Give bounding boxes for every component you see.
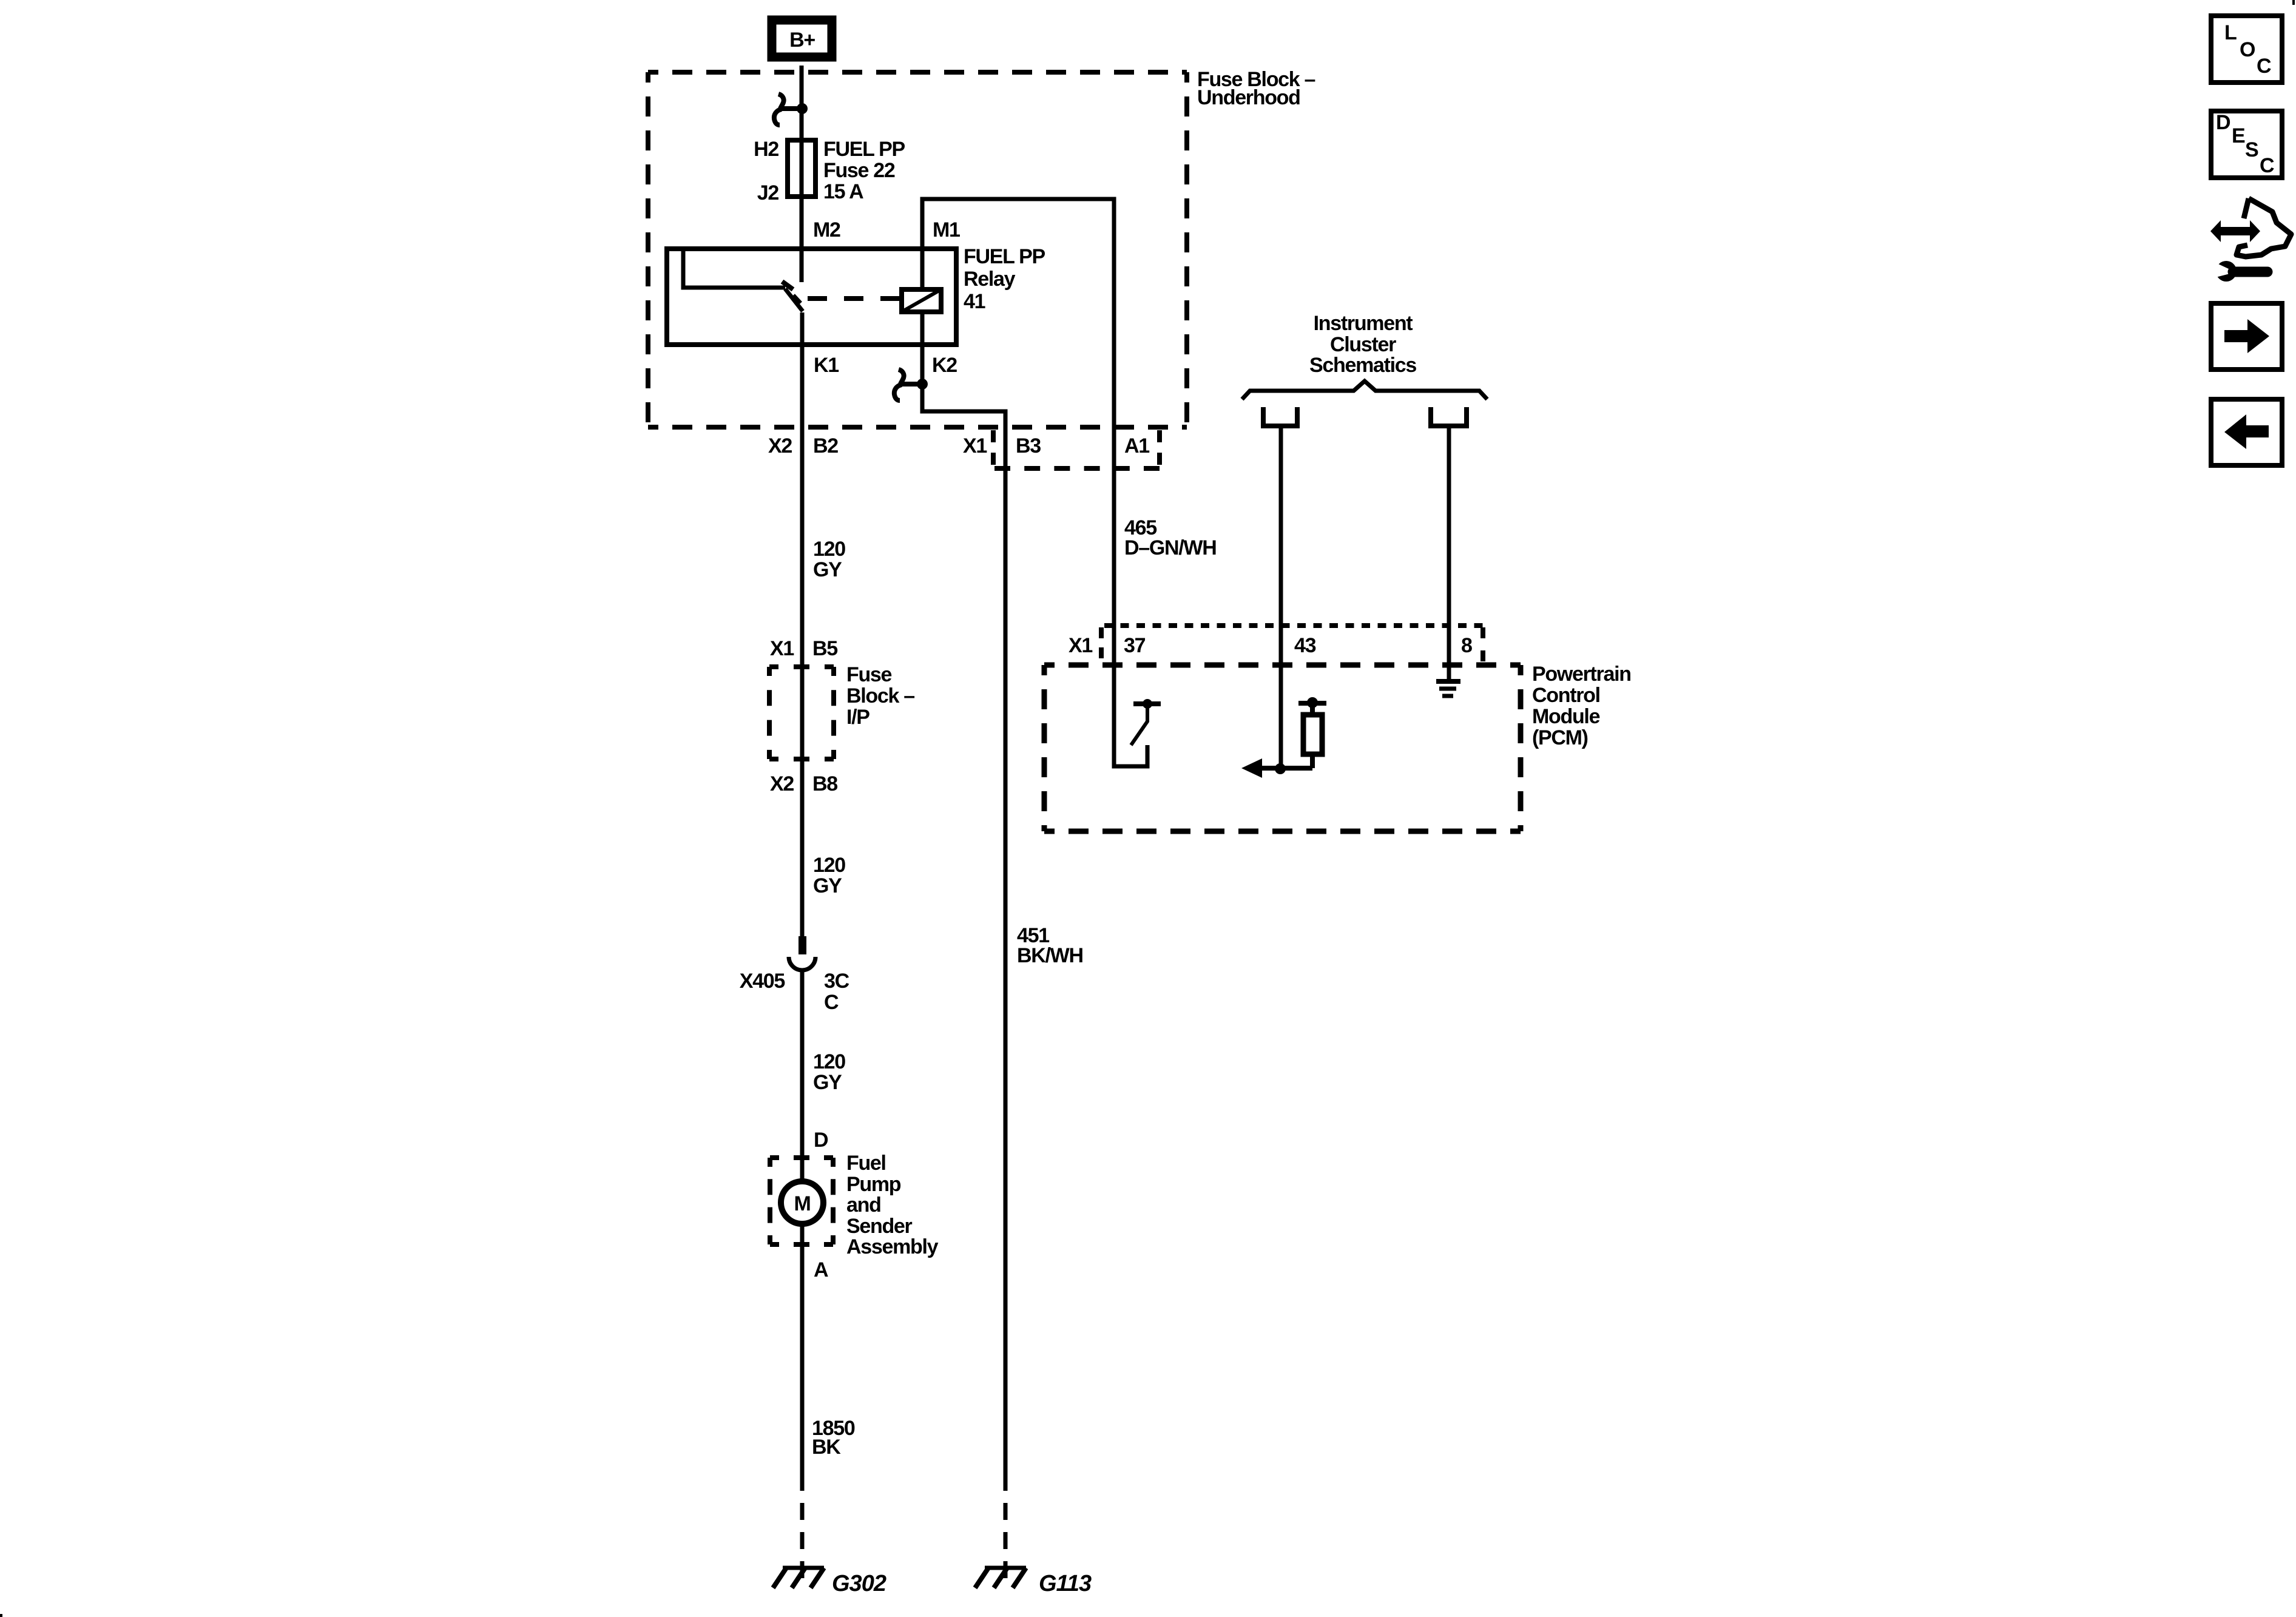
connector row X2 B2 — [768, 434, 838, 457]
relay contact tick — [782, 282, 793, 289]
fuse block underhood dashed box — [648, 72, 1187, 427]
svg-text:G302: G302 — [832, 1571, 886, 1596]
svg-text:Control: Control — [1532, 684, 1600, 707]
fuse block I/P dashed box — [769, 667, 834, 759]
svg-text:FUEL PP: FUEL PP — [823, 138, 905, 161]
label X405 3C C — [740, 970, 849, 1014]
brace instrument cluster — [1242, 381, 1487, 399]
value label FUEL PP Fuse 22 15 A — [823, 138, 905, 203]
instrument cluster connector left — [1263, 407, 1297, 426]
svg-text:E: E — [2232, 124, 2245, 147]
svg-text:Pump: Pump — [846, 1173, 901, 1196]
instrument cluster connector right — [1431, 407, 1467, 426]
svg-text:B8: B8 — [812, 772, 837, 795]
svg-text:M2: M2 — [813, 218, 840, 241]
svg-text:Powertrain: Powertrain — [1532, 663, 1631, 686]
svg-text:37: 37 — [1124, 634, 1146, 657]
svg-text:8: 8 — [1461, 634, 1472, 657]
svg-text:B2: B2 — [813, 434, 838, 457]
ground G302 — [773, 1568, 886, 1596]
wire M1 coil to PCM pin 37 (net 465) — [922, 199, 1147, 766]
wire pump to ground solid — [800, 1223, 805, 1491]
PCM internal ground at pin 8 — [1436, 681, 1460, 696]
svg-text:B5: B5 — [812, 637, 837, 660]
svg-text:Block –: Block – — [846, 684, 914, 707]
PCM dashed box — [1044, 665, 1521, 831]
svg-text:L: L — [2224, 21, 2237, 44]
svg-text:S: S — [2245, 138, 2258, 161]
svg-text:GY: GY — [813, 1071, 842, 1094]
svg-text:K1: K1 — [814, 354, 839, 377]
wire label 120 GY middle — [813, 854, 845, 897]
svg-text:Fuel: Fuel — [846, 1152, 886, 1175]
svg-text:Fuse 22: Fuse 22 — [823, 159, 895, 182]
PCM internal resistor at pin 43 — [1298, 697, 1326, 768]
label FUEL PP Relay 41 — [964, 245, 1045, 313]
wire relay arm to K1 — [800, 312, 805, 936]
wire dashed to G113 — [1004, 1503, 1008, 1580]
svg-text:41: 41 — [964, 290, 985, 313]
page artifact dot bottom left — [0, 1614, 2, 1617]
svg-text:Cluster: Cluster — [1330, 333, 1396, 356]
svg-text:O: O — [2240, 38, 2255, 61]
svg-text:M: M — [794, 1192, 810, 1215]
svg-text:D: D — [814, 1129, 828, 1152]
icon forward arrow box — [2211, 303, 2282, 370]
svg-text:J2: J2 — [757, 181, 779, 204]
svg-text:120: 120 — [813, 854, 845, 877]
svg-text:B+: B+ — [789, 29, 815, 52]
svg-text:X405: X405 — [740, 970, 785, 993]
svg-text:M1: M1 — [933, 218, 960, 241]
svg-text:Instrument: Instrument — [1314, 312, 1413, 335]
splice clip at B+ feed — [774, 94, 808, 125]
relay fixed contact lead — [683, 249, 785, 288]
svg-text:Relay: Relay — [964, 268, 1016, 291]
net label 451 BK/WH — [1017, 924, 1083, 967]
icon DESC box — [2211, 111, 2282, 178]
wire coil to K2 and jog to net 451 — [922, 312, 1005, 1491]
fuel pump and sender assembly dashed box — [770, 1158, 833, 1244]
svg-text:120: 120 — [813, 1050, 845, 1073]
svg-text:I/P: I/P — [846, 706, 869, 729]
svg-text:43: 43 — [1294, 634, 1316, 657]
label Fuel Pump and Sender Assembly — [846, 1152, 939, 1258]
wire label 120 GY upper — [813, 538, 845, 581]
svg-text:Schematics: Schematics — [1309, 354, 1416, 377]
fuse FUEL PP Fuse 22 15A — [788, 140, 815, 197]
relay switch arm — [785, 289, 803, 311]
connector row X2 B8 — [770, 772, 837, 795]
svg-text:120: 120 — [813, 538, 845, 561]
svg-text:GY: GY — [813, 874, 842, 897]
svg-text:X2: X2 — [768, 434, 792, 457]
svg-text:Fuse: Fuse — [846, 663, 892, 686]
connector X405 — [789, 936, 815, 970]
svg-text:FUEL PP: FUEL PP — [964, 245, 1045, 268]
svg-text:B3: B3 — [1016, 434, 1041, 457]
svg-text:C: C — [2257, 55, 2271, 78]
svg-text:X1: X1 — [963, 434, 987, 457]
svg-text:15 A: 15 A — [823, 180, 863, 203]
svg-text:Module: Module — [1532, 705, 1600, 728]
svg-text:G113: G113 — [1039, 1571, 1092, 1596]
PCM internal wire with arrow at pin 43 — [1241, 758, 1312, 778]
ground G113 — [975, 1568, 1092, 1596]
PCM connector X1 strip — [1101, 626, 1483, 661]
svg-text:C: C — [2260, 154, 2274, 177]
svg-text:(PCM): (PCM) — [1532, 726, 1588, 749]
connector dashed box B3 A1 — [993, 430, 1160, 468]
relay mechanical link dashed — [808, 296, 902, 301]
page artifact dot top right — [2292, 0, 2295, 5]
wire dashed to G302 — [800, 1503, 805, 1580]
splice clip at K2 — [894, 370, 928, 400]
svg-text:K2: K2 — [932, 354, 957, 377]
connector row X1 B3 — [963, 434, 1041, 457]
svg-text:Sender: Sender — [846, 1215, 913, 1238]
svg-text:H2: H2 — [754, 138, 778, 161]
label Fuse Block - I/P — [846, 663, 914, 729]
label Powertrain Control Module (PCM) — [1532, 663, 1631, 749]
motor M fuel pump — [781, 1181, 823, 1224]
label Instrument Cluster Schematics — [1309, 312, 1416, 377]
svg-text:BK/WH: BK/WH — [1017, 944, 1083, 967]
svg-text:A: A — [814, 1258, 828, 1281]
relay coil — [902, 289, 941, 312]
wire cluster to PCM pin 8 — [1447, 426, 1451, 683]
svg-text:X1: X1 — [770, 637, 794, 660]
icon back arrow box — [2211, 399, 2282, 465]
svg-text:and: and — [846, 1193, 881, 1217]
PCM internal switch at pin 37 — [1131, 699, 1161, 745]
svg-text:D–GN/WH: D–GN/WH — [1124, 536, 1216, 559]
svg-text:X2: X2 — [770, 772, 794, 795]
relay U41 FUEL PP Relay box — [667, 249, 956, 345]
wire label 120 GY lower — [813, 1050, 845, 1094]
connector row X1 B5 — [770, 637, 837, 660]
svg-text:Assembly: Assembly — [846, 1235, 939, 1258]
node B+ battery terminal — [772, 20, 832, 57]
icon wrench with arrows — [2210, 198, 2291, 282]
wire X405 to pump — [800, 971, 805, 1183]
svg-text:C: C — [824, 991, 839, 1014]
svg-text:BK: BK — [812, 1436, 841, 1459]
label Fuse Block - Underhood — [1197, 68, 1315, 109]
wire B+ to relay M2 — [800, 66, 804, 282]
svg-text:3C: 3C — [824, 970, 849, 993]
wire label 1850 BK — [812, 1417, 855, 1459]
net label 465 D-GN/WH — [1124, 516, 1216, 559]
svg-text:D: D — [2216, 111, 2230, 134]
icon LOC box — [2211, 16, 2282, 83]
svg-text:Underhood: Underhood — [1197, 86, 1300, 109]
wire cluster to PCM pin 43 — [1279, 426, 1283, 768]
svg-text:A1: A1 — [1124, 434, 1149, 457]
svg-text:GY: GY — [813, 558, 842, 581]
svg-text:X1: X1 — [1069, 634, 1092, 657]
